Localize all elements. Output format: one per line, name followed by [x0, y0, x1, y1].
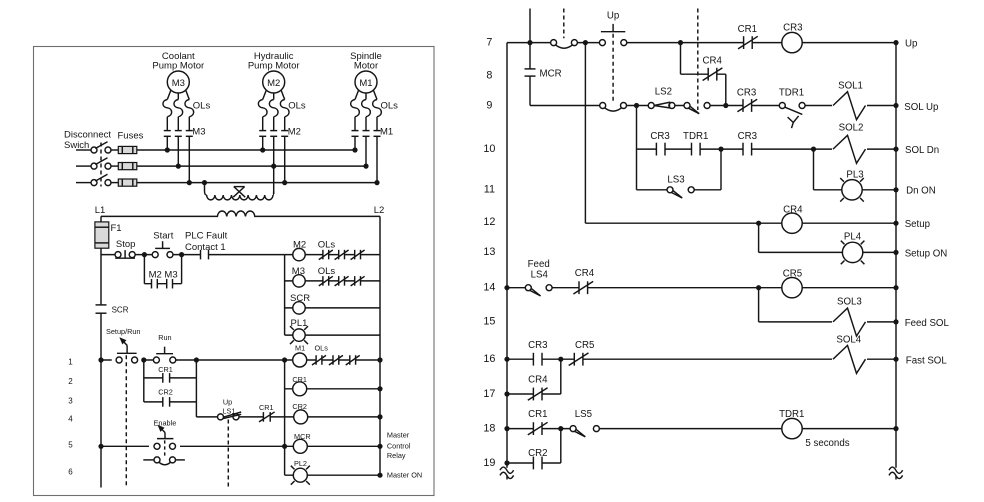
svg-text:M3: M3	[292, 266, 305, 277]
svg-text:SOL1: SOL1	[838, 81, 863, 92]
svg-text:M2 M3: M2 M3	[149, 270, 178, 281]
svg-text:MCR: MCR	[294, 432, 311, 441]
svg-text:17: 17	[483, 388, 495, 400]
svg-text:Master: Master	[387, 430, 410, 439]
svg-text:14: 14	[483, 282, 495, 294]
svg-text:M2: M2	[267, 78, 280, 89]
svg-text:Stop: Stop	[116, 239, 136, 250]
svg-text:OLs: OLs	[381, 101, 399, 112]
svg-text:2: 2	[68, 377, 73, 386]
svg-text:11: 11	[484, 184, 495, 196]
svg-text:CR4: CR4	[528, 374, 548, 385]
svg-text:CR5: CR5	[783, 269, 802, 280]
svg-text:10: 10	[483, 143, 495, 155]
svg-text:PL4: PL4	[844, 232, 862, 243]
svg-text:Swich: Swich	[64, 140, 89, 151]
svg-text:SOL Dn: SOL Dn	[905, 145, 939, 156]
svg-text:LS4: LS4	[531, 270, 549, 281]
svg-text:SOL2: SOL2	[839, 123, 864, 134]
svg-text:Feed: Feed	[528, 259, 550, 270]
svg-text:CR3: CR3	[783, 23, 802, 34]
svg-text:Start: Start	[153, 230, 173, 241]
svg-text:CR1: CR1	[528, 409, 547, 420]
svg-text:PL1: PL1	[291, 318, 308, 329]
svg-text:LS3: LS3	[667, 174, 684, 185]
svg-text:18: 18	[483, 422, 495, 434]
svg-text:TDR1: TDR1	[683, 131, 708, 142]
svg-text:Pump Motor: Pump Motor	[152, 61, 204, 72]
svg-text:Fuses: Fuses	[118, 131, 144, 142]
svg-text:L2: L2	[374, 205, 385, 216]
svg-text:CR2: CR2	[158, 388, 173, 397]
svg-text:CR5: CR5	[575, 340, 594, 351]
svg-text:CR2: CR2	[528, 448, 547, 459]
svg-text:Up: Up	[223, 397, 232, 406]
svg-text:Setup: Setup	[905, 219, 930, 230]
svg-text:8: 8	[486, 69, 492, 81]
svg-text:M1: M1	[359, 78, 372, 89]
svg-text:CR3: CR3	[738, 131, 757, 142]
svg-text:Contact 1: Contact 1	[185, 242, 226, 253]
svg-text:MCR: MCR	[540, 69, 562, 80]
svg-text:L1: L1	[95, 205, 106, 216]
svg-text:7: 7	[486, 37, 492, 49]
svg-text:CR2: CR2	[292, 402, 307, 411]
svg-text:CR1: CR1	[738, 24, 757, 35]
svg-text:PLC Fault: PLC Fault	[185, 231, 228, 242]
svg-text:Up: Up	[607, 11, 619, 22]
svg-text:1: 1	[68, 357, 73, 366]
svg-text:M3: M3	[172, 78, 185, 89]
svg-text:PL2: PL2	[294, 459, 307, 468]
svg-text:SCR: SCR	[290, 293, 310, 304]
svg-text:4: 4	[68, 414, 73, 423]
svg-text:Motor: Motor	[354, 61, 378, 72]
svg-text:LS2: LS2	[655, 87, 672, 98]
svg-text:LS1: LS1	[223, 406, 236, 415]
svg-text:M2: M2	[288, 127, 301, 138]
svg-text:M3: M3	[192, 127, 205, 138]
svg-text:Relay: Relay	[387, 451, 406, 460]
svg-text:Feed SOL: Feed SOL	[905, 318, 950, 329]
svg-text:Disconnect: Disconnect	[64, 130, 111, 141]
svg-text:LS5: LS5	[575, 409, 592, 420]
svg-text:TDR1: TDR1	[779, 409, 804, 420]
svg-text:OLs: OLs	[318, 266, 336, 277]
svg-text:5: 5	[68, 441, 73, 450]
svg-text:SOL Up: SOL Up	[904, 102, 938, 113]
svg-text:SOL4: SOL4	[836, 335, 861, 346]
svg-text:19: 19	[483, 457, 495, 469]
svg-text:13: 13	[483, 246, 495, 258]
svg-text:Run: Run	[158, 333, 171, 342]
svg-text:Pump Motor: Pump Motor	[248, 61, 300, 72]
svg-text:F1: F1	[111, 223, 122, 234]
svg-text:Dn ON: Dn ON	[906, 185, 936, 196]
svg-text:15: 15	[483, 316, 495, 328]
svg-text:Setup ON: Setup ON	[905, 249, 948, 260]
svg-text:CR4: CR4	[783, 205, 803, 216]
svg-text:OLs: OLs	[288, 101, 306, 112]
svg-text:CR3: CR3	[650, 131, 669, 142]
svg-text:M2: M2	[293, 240, 306, 251]
svg-text:CR3: CR3	[737, 87, 756, 98]
svg-text:9: 9	[486, 99, 492, 111]
svg-text:SCR: SCR	[112, 305, 129, 314]
svg-text:Fast SOL: Fast SOL	[906, 355, 948, 366]
svg-text:CR1: CR1	[158, 365, 173, 374]
svg-text:Master ON: Master ON	[387, 471, 422, 480]
svg-text:CR1: CR1	[292, 375, 307, 384]
svg-text:3: 3	[68, 396, 73, 405]
svg-text:OLs: OLs	[318, 240, 336, 251]
svg-text:M1: M1	[380, 127, 393, 138]
svg-text:CR1: CR1	[259, 403, 274, 412]
svg-text:TDR1: TDR1	[779, 87, 804, 98]
svg-text:Control: Control	[387, 441, 411, 450]
svg-text:PL3: PL3	[846, 170, 863, 181]
svg-text:Enable: Enable	[154, 418, 177, 427]
svg-text:6: 6	[68, 468, 73, 477]
svg-text:M1: M1	[295, 343, 305, 352]
svg-text:CR4: CR4	[703, 56, 723, 67]
svg-text:OLs: OLs	[315, 344, 329, 353]
svg-text:Setup/Run: Setup/Run	[106, 327, 140, 336]
svg-text:16: 16	[483, 353, 495, 365]
svg-text:12: 12	[483, 216, 495, 228]
svg-text:CR3: CR3	[528, 340, 547, 351]
svg-text:CR4: CR4	[575, 268, 595, 279]
svg-text:OLs: OLs	[193, 101, 211, 112]
svg-text:5 seconds: 5 seconds	[805, 438, 849, 449]
svg-text:Up: Up	[905, 38, 917, 49]
svg-text:SOL3: SOL3	[837, 297, 862, 308]
